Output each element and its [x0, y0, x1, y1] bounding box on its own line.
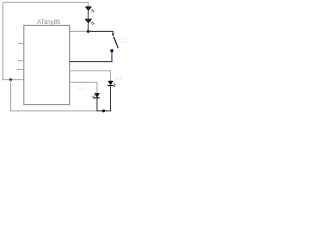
node: ground rail junction: [102, 109, 105, 112]
pushbutton S1 lever: [114, 37, 119, 48]
LED D4 (IR B): [108, 81, 116, 87]
LED D1 (top chain, upper): [85, 7, 94, 13]
wire: IC pin to LED D4 (IR B): [70, 71, 111, 81]
node: chain/switch junction: [87, 30, 90, 33]
wire: junction to switch (purple): [88, 31, 113, 33]
wire: LED D4 cathode to ground rail (black): [104, 86, 111, 111]
junction dot on left wire: [9, 78, 12, 81]
IC U1 ATtiny85 body: [24, 25, 70, 104]
pin stub left pin 1: [19, 43, 24, 45]
wire: IC pin to LED D3 (IR A): [70, 82, 97, 93]
wire: IC pin to chain junction (gray): [70, 30, 89, 32]
svg-text:ATtiny85: ATtiny85: [37, 19, 61, 26]
svg-text:IR B: IR B: [115, 77, 123, 81]
wire: chain segment between LEDs: [87, 11, 89, 19]
pin stub left pin 3: [17, 69, 24, 71]
svg-text:IR A: IR A: [78, 87, 86, 91]
wire: switch to IC pin (purple): [70, 52, 112, 62]
LED D3 (IR A): [93, 93, 100, 98]
wire: top-left rail (net to LED chain anode): [3, 2, 88, 79]
wire: chain segment to junction: [87, 23, 89, 31]
pushbutton S1 actuator arrow: [112, 34, 115, 37]
wire: LED D3 cathode to ground rail (black): [97, 98, 104, 111]
LED D2 (top chain, lower): [85, 19, 94, 25]
pin stub left pin 2: [18, 60, 24, 62]
wire: ground drop from left junction: [11, 80, 99, 111]
svg-text:P.B.: P.B.: [122, 41, 129, 45]
pushbutton S1 bottom terminal: [110, 49, 113, 52]
